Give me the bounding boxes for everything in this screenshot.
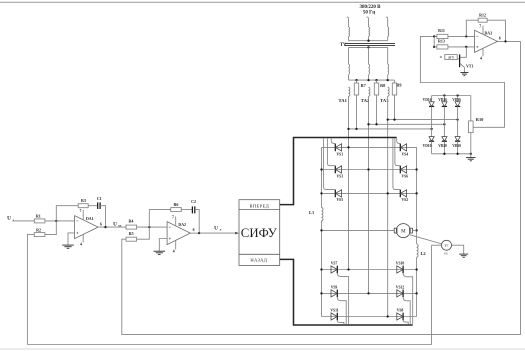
- svg-text:ТА1: ТА1: [338, 98, 347, 103]
- wire DA3 output: [498, 40, 521, 42]
- node primary star: [367, 40, 369, 42]
- svg-text:VS7: VS7: [331, 262, 338, 266]
- wire Uz input: [13, 220, 35, 222]
- node bottom rail col3: [456, 153, 458, 155]
- DA2 pin 7: [175, 216, 177, 226]
- svg-text:L2: L2: [420, 251, 425, 256]
- wire row VS5-VS2: [322, 192, 417, 194]
- thyristor VS7: [336, 266, 338, 274]
- op-amp DA2: [167, 222, 190, 245]
- svg-text:R8: R8: [380, 83, 385, 88]
- wire motor row: [322, 229, 395, 231]
- node right bus: [415, 229, 417, 231]
- resistor R3: [78, 204, 88, 208]
- svg-text:VS3: VS3: [337, 175, 344, 179]
- ground rectifier: [470, 154, 472, 158]
- SIFU divider top: [239, 209, 280, 211]
- svg-text:ЗГТ: ЗГТ: [448, 56, 455, 60]
- resistor R2: [34, 233, 45, 237]
- wire to VT1 collector: [460, 47, 466, 57]
- DA1 pin 7: [82, 210, 84, 220]
- wire NAZAD gate bus: [280, 259, 413, 325]
- DA2 plus sign: [169, 238, 171, 240]
- svg-text:DA2: DA2: [178, 223, 186, 227]
- SIFU divider bottom: [239, 253, 280, 255]
- mechanical coupling to tacho: [410, 235, 442, 244]
- svg-text:TV: TV: [340, 43, 347, 48]
- node right bus: [415, 292, 417, 294]
- svg-text:4: 4: [80, 243, 82, 247]
- svg-text:6: 6: [499, 37, 501, 41]
- svg-text:C1: C1: [97, 196, 102, 201]
- svg-text:VD26: VD26: [438, 98, 447, 102]
- node rail-phaseB: [367, 79, 369, 81]
- wire C2 to output: [195, 210, 199, 234]
- wire row VS3-VS6: [322, 169, 417, 171]
- diode VD26: [443, 96, 445, 102]
- node phaseA tap: [347, 128, 349, 130]
- ground VT1: [463, 71, 465, 73]
- node rail-R8: [375, 79, 377, 81]
- wire row VS11-VS8: [322, 316, 417, 318]
- current transformer TA2: [369, 87, 370, 96]
- DA1 plus sign: [76, 232, 78, 234]
- node bottom rail col2: [443, 153, 445, 155]
- TV secondary winding 2: [368, 47, 370, 64]
- DA1 pin 4: [82, 234, 84, 242]
- svg-text:VT1: VT1: [466, 65, 473, 69]
- wire DA2 noninverting to ground: [159, 239, 167, 252]
- thyristor VS11: [336, 313, 338, 321]
- svg-text:VD36: VD36: [452, 98, 461, 102]
- node left bus: [320, 192, 322, 194]
- svg-text:R5: R5: [129, 231, 134, 236]
- inductor L1: [322, 208, 324, 221]
- svg-text:VD16: VD16: [423, 98, 432, 102]
- svg-text:VS5: VS5: [337, 198, 344, 202]
- resistor R13: [434, 46, 437, 48]
- svg-text:R1: R1: [36, 213, 41, 218]
- svg-text:7: 7: [479, 25, 481, 29]
- svg-text:VS8: VS8: [397, 309, 404, 313]
- svg-text:6: 6: [193, 228, 195, 232]
- TV primary winding 2: [367, 17, 369, 19]
- wire DA1 output: [98, 226, 126, 228]
- resistor R4: [126, 225, 137, 229]
- diode VD16: [431, 96, 433, 102]
- node top rail col3: [456, 94, 458, 96]
- wire DA1 feedback riser: [56, 206, 78, 221]
- inductor L2: [417, 244, 419, 257]
- svg-text:ТГ: ТГ: [444, 244, 448, 248]
- node DA3 noninverting input: [465, 46, 467, 48]
- node bottom rail R10: [470, 153, 472, 155]
- svg-text:R12: R12: [479, 12, 486, 17]
- node R13 left: [433, 46, 435, 48]
- TV primary winding 3: [386, 17, 388, 19]
- node R8 bottom: [375, 123, 377, 125]
- wire phase C vertical: [387, 96, 389, 316]
- node right bus: [415, 168, 417, 170]
- node phase B row5: [367, 292, 369, 294]
- wire phase B to rectifier: [369, 123, 445, 125]
- wire current feedback: [122, 41, 521, 334]
- wire R11-R13 link: [433, 36, 435, 47]
- DA1 minus sign: [76, 220, 78, 222]
- svg-text:C2: C2: [191, 199, 196, 204]
- wire ZGT to VT1 base: [457, 58, 459, 60]
- current transformer TA3: [388, 87, 389, 96]
- node secondary star: [367, 46, 369, 48]
- op-amp DA1: [75, 216, 99, 239]
- TV primary winding 1: [347, 17, 349, 19]
- svg-text:R10: R10: [476, 117, 484, 122]
- node phaseB tap: [367, 123, 369, 125]
- svg-text:R13: R13: [438, 39, 445, 44]
- node left bus: [320, 292, 322, 294]
- bottom frame line: [0, 348, 525, 350]
- svg-text:СИФУ: СИФУ: [241, 226, 278, 240]
- wire Uy to SIFU: [199, 232, 236, 234]
- wire R12 left: [466, 20, 478, 36]
- wire tacho right to ground: [452, 245, 464, 254]
- node rect col2 mid: [443, 123, 445, 125]
- ground DA1: [67, 244, 69, 246]
- node phase B row2: [367, 168, 369, 170]
- thyristor VS4: [399, 144, 401, 152]
- wire right bus: [416, 147, 418, 244]
- wire R5 right: [137, 227, 150, 239]
- wire motor to right bus: [412, 229, 416, 231]
- thyristor VS1: [334, 144, 336, 152]
- svg-text:DA3: DA3: [485, 31, 493, 35]
- node phase C row6: [387, 315, 389, 317]
- svg-text:R11: R11: [438, 28, 445, 33]
- svg-text:R9: R9: [396, 82, 401, 87]
- node right bus: [415, 268, 417, 270]
- diode VD10: [431, 129, 433, 137]
- resistor R1: [34, 219, 45, 223]
- ground tacho: [463, 253, 465, 255]
- svg-text:DA1: DA1: [86, 217, 94, 221]
- thyristor VS8: [402, 313, 404, 321]
- SIFU box: [239, 200, 280, 266]
- thyristor VS2: [399, 190, 401, 198]
- svg-text:з: з: [13, 218, 15, 222]
- svg-text:М: М: [401, 230, 406, 235]
- diode VD30: [457, 120, 459, 137]
- svg-text:VS10: VS10: [396, 262, 405, 266]
- wire row VS7-VS10: [322, 269, 417, 271]
- svg-text:зт: зт: [118, 224, 121, 228]
- DA2 minus sign: [169, 226, 171, 228]
- resistor R9: [394, 80, 396, 83]
- node left bus: [320, 229, 322, 231]
- svg-text:VD20: VD20: [438, 144, 447, 148]
- svg-text:R2: R2: [36, 227, 41, 232]
- wire TA top rail: [349, 79, 395, 81]
- node phase A row1: [347, 146, 349, 148]
- svg-text:НАЗАД: НАЗАД: [250, 258, 267, 263]
- wire DA1 noninverting to ground: [68, 233, 75, 245]
- DA3 plus sign: [476, 46, 478, 48]
- svg-text:R4: R4: [129, 218, 134, 223]
- svg-text:≈: ≈: [440, 55, 443, 60]
- wire phase C to rectifier: [388, 119, 458, 121]
- wire R12 right: [487, 20, 505, 41]
- motor right brush: [410, 228, 413, 233]
- svg-text:VS2: VS2: [402, 198, 409, 202]
- svg-text:VS6: VS6: [402, 175, 409, 179]
- thyristor VS5: [334, 190, 336, 198]
- svg-text:U: U: [113, 221, 117, 227]
- svg-text:R6: R6: [174, 202, 179, 207]
- resistor R12: [478, 18, 487, 22]
- wire row VS1-VS4: [322, 146, 417, 148]
- svg-text:ВПЕРЕД: ВПЕРЕД: [250, 203, 270, 208]
- node DA2 output: [198, 232, 200, 234]
- wire C1 to output: [100, 206, 105, 227]
- op-amp DA3: [475, 30, 498, 52]
- node rail-phaseC: [387, 79, 389, 81]
- svg-text:7: 7: [80, 209, 82, 213]
- wire rectifier top rail: [432, 95, 471, 97]
- node phase C row3: [387, 192, 389, 194]
- node left bus: [320, 268, 322, 270]
- DA3 pin 7: [482, 26, 484, 35]
- svg-text:6: 6: [100, 222, 102, 226]
- svg-text:VS12: VS12: [396, 286, 405, 290]
- node rect col3 mid: [456, 118, 458, 120]
- motor left brush: [394, 228, 397, 233]
- thyristor VS9: [336, 290, 338, 298]
- wire VPERED gate bus: [280, 138, 397, 205]
- node phaseC tap: [387, 118, 389, 120]
- resistor R10: [469, 121, 474, 133]
- node R11 left: [433, 35, 435, 37]
- wire phase B vertical: [368, 96, 370, 293]
- thyristor VS12: [402, 290, 404, 298]
- diode VD20: [443, 124, 445, 136]
- current transformer TA1: [349, 87, 350, 96]
- svg-text:VD30: VD30: [452, 144, 461, 148]
- node DA1 inverting: [55, 220, 57, 222]
- node DA2 inverting: [148, 226, 150, 228]
- tachogenerator BR circle: [442, 240, 452, 250]
- node phase A row4: [347, 268, 349, 270]
- DA3 minus sign: [476, 35, 478, 37]
- svg-text:50 Гц: 50 Гц: [363, 11, 375, 16]
- svg-text:L1: L1: [309, 210, 314, 215]
- svg-text:380/220 В: 380/220 В: [360, 5, 382, 10]
- node right bus: [415, 192, 417, 194]
- wire R10 to DA3 inputs: [420, 36, 504, 127]
- wire row VS9-VS12: [322, 292, 417, 294]
- wire left bus: [321, 147, 323, 207]
- node R7 bottom: [355, 128, 357, 130]
- thyristor VS10: [402, 266, 404, 274]
- thyristor VS6: [399, 166, 401, 174]
- node DA3 inverting input: [465, 35, 467, 37]
- node top rail col2: [443, 94, 445, 96]
- TV secondary winding 3: [387, 47, 389, 64]
- resistor R6: [171, 208, 182, 212]
- capacitor C2: [191, 206, 193, 213]
- transistor VT1 bar: [459, 54, 461, 67]
- svg-text:VS9: VS9: [331, 286, 338, 290]
- DA2 pin 4: [175, 240, 177, 249]
- wire speed feedback: [27, 245, 431, 344]
- wire secondary star rail: [349, 46, 388, 48]
- svg-text:VS4: VS4: [402, 153, 409, 157]
- wire tacho left: [432, 244, 442, 246]
- wire DA2 output: [190, 232, 199, 234]
- node rect col1 mid: [430, 128, 432, 130]
- svg-text:VS11: VS11: [330, 309, 338, 313]
- TV core: [345, 42, 395, 44]
- svg-text:BR: BR: [444, 252, 448, 256]
- sync box ZGT: [445, 55, 457, 60]
- svg-text:у: у: [220, 228, 222, 232]
- svg-text:4: 4: [480, 57, 482, 61]
- svg-text:U: U: [7, 216, 11, 222]
- svg-text:R3: R3: [81, 198, 86, 203]
- wire phase A to rectifier: [349, 128, 432, 130]
- DA3 pin 4: [482, 48, 484, 56]
- svg-text:VS1: VS1: [337, 153, 344, 157]
- svg-text:4: 4: [173, 250, 175, 254]
- motor M circle: [396, 224, 410, 238]
- diode VD36: [457, 96, 459, 102]
- wire phase A vertical: [348, 96, 350, 269]
- top frame line: [0, 1, 525, 3]
- node R9 bottom: [393, 118, 395, 120]
- svg-text:VD10: VD10: [423, 144, 432, 148]
- ground DA2: [158, 250, 160, 252]
- node DA3 output: [504, 40, 506, 42]
- TV secondary winding 1: [348, 47, 350, 64]
- resistor R11: [437, 34, 448, 38]
- wire rectifier bottom rail: [432, 153, 471, 155]
- resistor R7: [356, 80, 358, 83]
- svg-text:7: 7: [172, 215, 174, 219]
- wire primary star rail: [349, 40, 388, 42]
- node rail-R7: [355, 79, 357, 81]
- node left bus: [320, 168, 322, 170]
- capacitor C1: [97, 202, 99, 209]
- resistor R8: [376, 80, 378, 83]
- resistor R5: [126, 237, 137, 241]
- node DA1 output: [104, 226, 106, 228]
- svg-text:R7: R7: [361, 83, 366, 88]
- svg-text:U: U: [214, 225, 218, 231]
- wire DA2 feedback riser: [149, 210, 170, 228]
- wire R2 left to speed feedback: [27, 235, 34, 345]
- transistor VT1 emitter: [460, 63, 465, 67]
- thyristor VS3: [334, 166, 336, 174]
- wire R2 right: [45, 221, 56, 235]
